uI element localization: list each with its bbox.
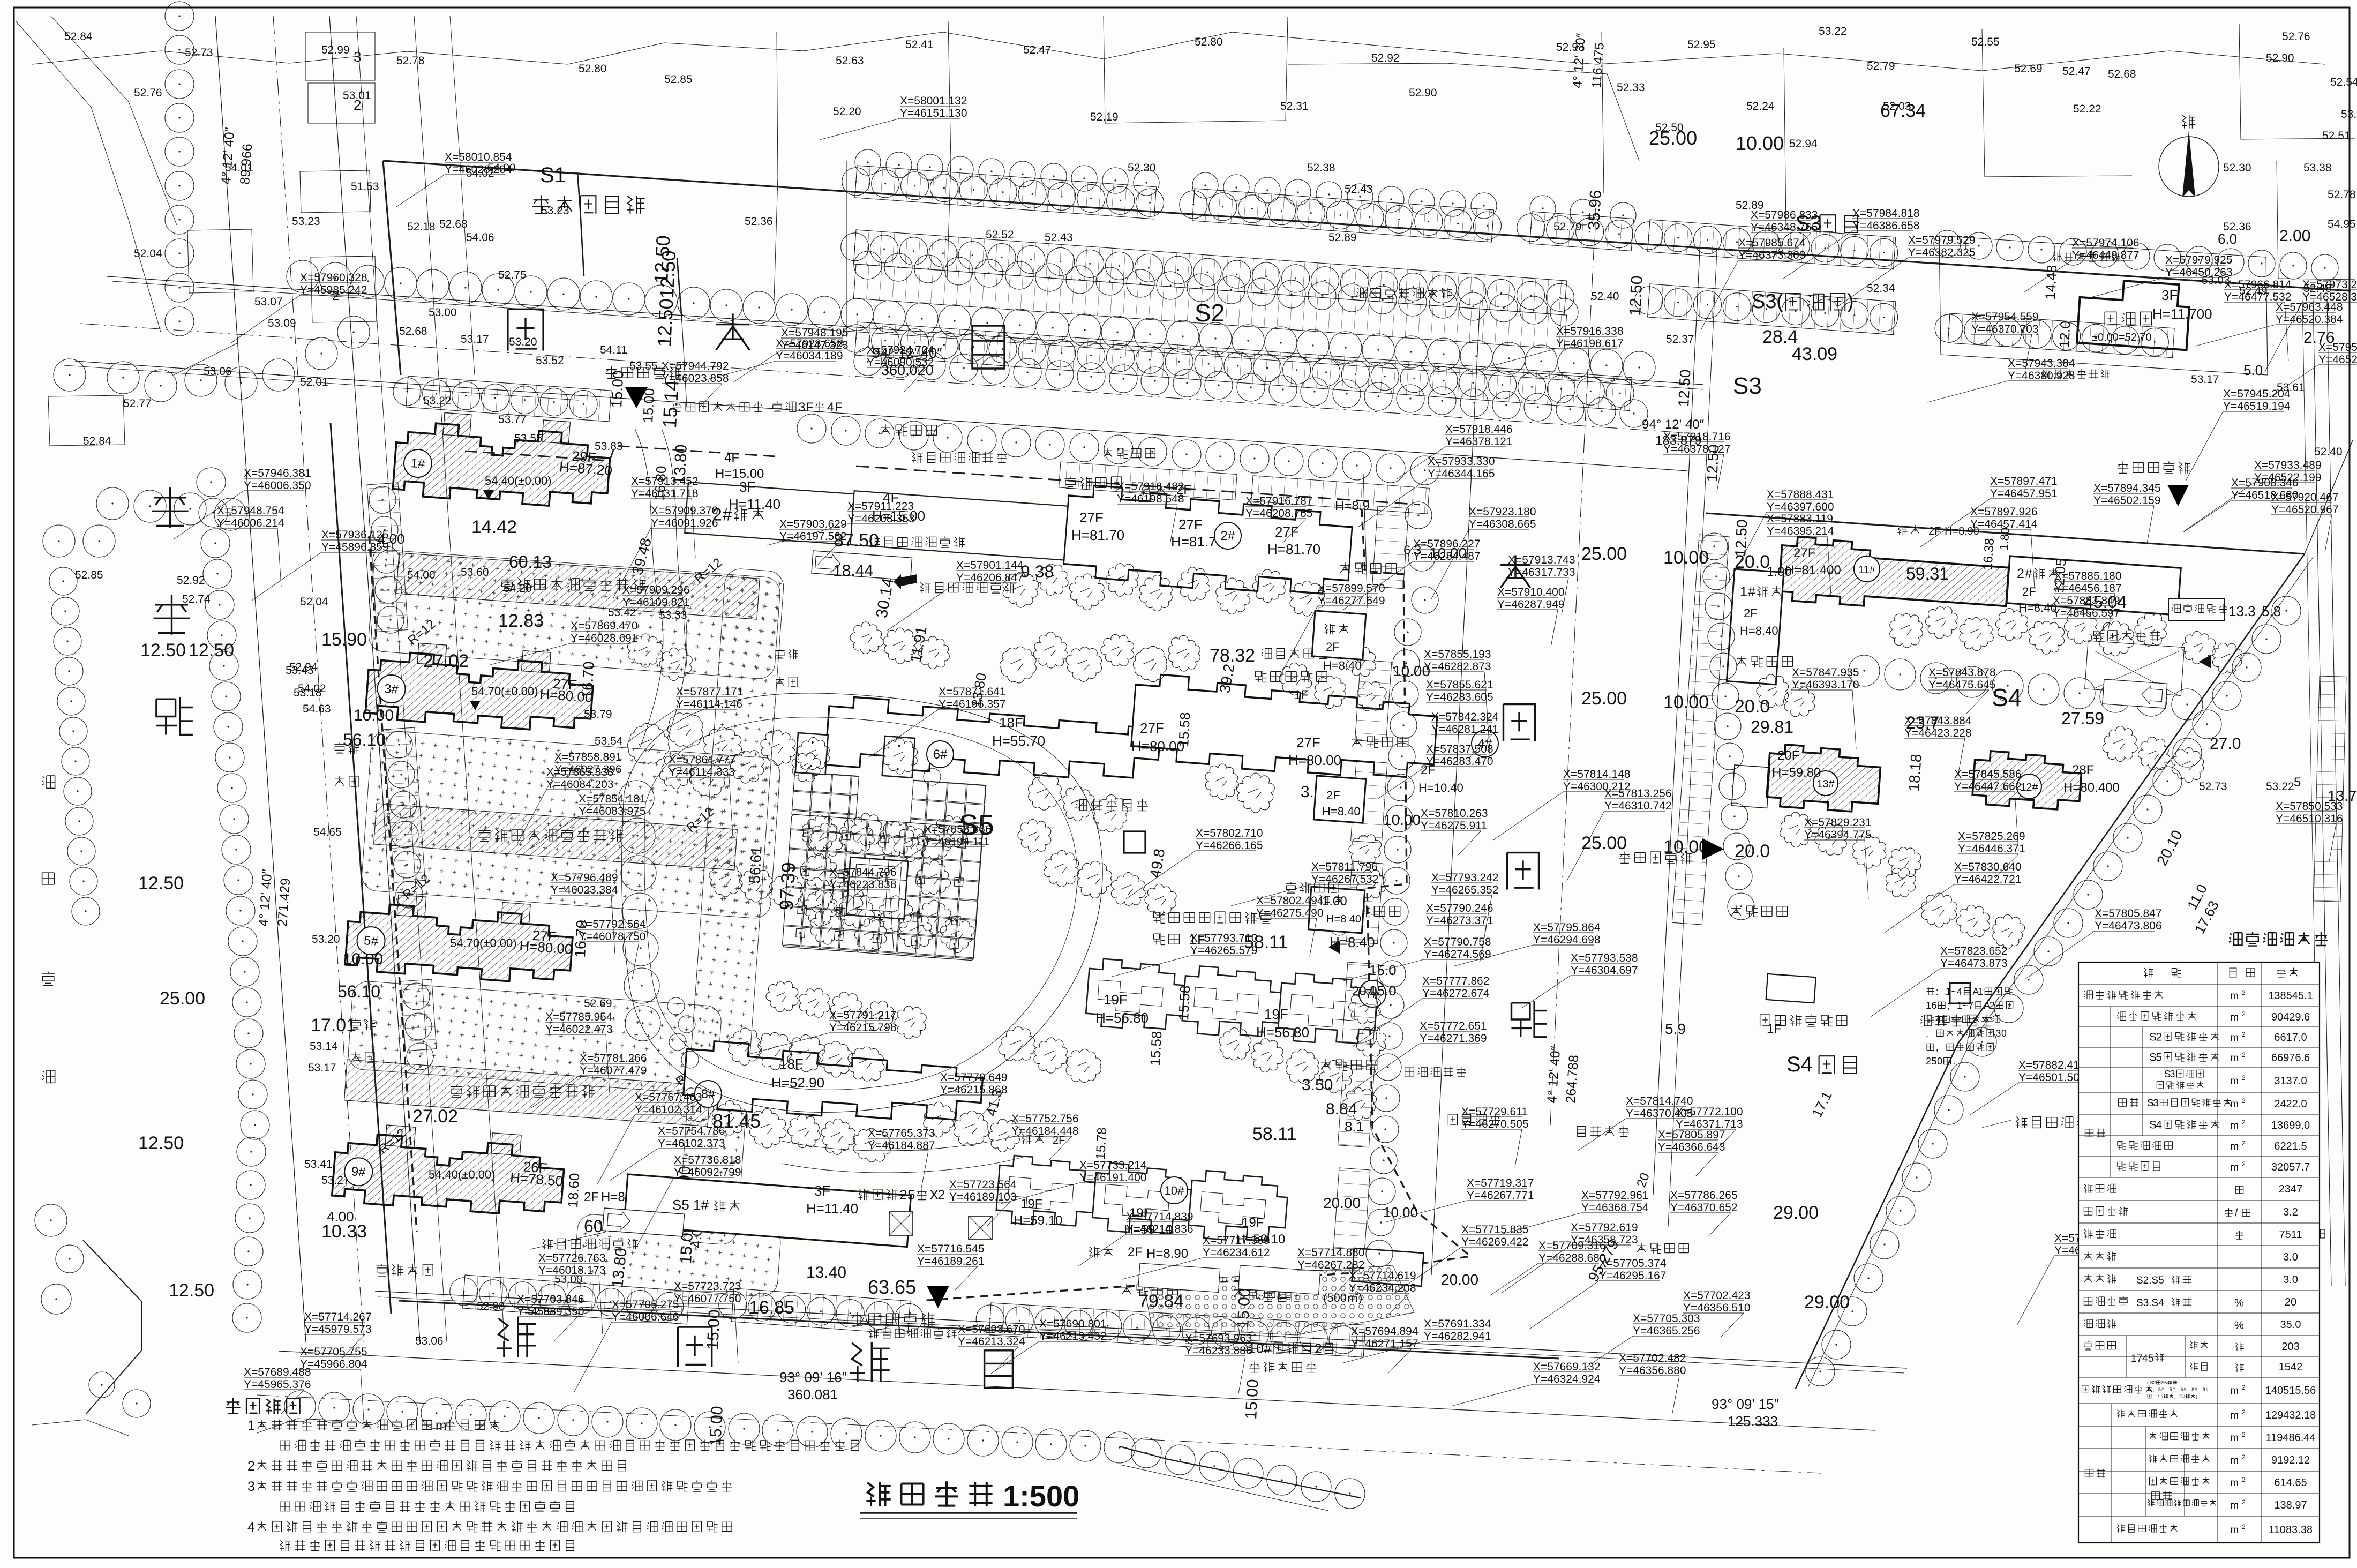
svg-text:16.38: 16.38 <box>1980 538 1997 571</box>
svg-text:X=57705.275: X=57705.275 <box>612 1299 679 1311</box>
svg-text:1: 1 <box>1957 1000 1962 1011</box>
svg-text:90429.6: 90429.6 <box>2271 1011 2310 1023</box>
svg-text:56.10: 56.10 <box>337 982 380 1001</box>
svg-text:3.0: 3.0 <box>2283 1251 2298 1263</box>
svg-text:H=56.80: H=56.80 <box>1095 1010 1149 1026</box>
svg-text:Y=46368.754: Y=46368.754 <box>1581 1202 1649 1214</box>
svg-text:H=8 40: H=8 40 <box>1326 913 1361 925</box>
svg-text:X=57785.954: X=57785.954 <box>545 1011 613 1023</box>
svg-text:Y=46189.261: Y=46189.261 <box>917 1255 985 1267</box>
svg-text:2: 2 <box>2242 1408 2246 1416</box>
svg-text:53.09: 53.09 <box>268 317 296 329</box>
svg-text:2F: 2F <box>1928 526 1941 537</box>
svg-text:Y=46084.203: Y=46084.203 <box>546 778 614 791</box>
svg-text:52.63: 52.63 <box>836 55 864 67</box>
svg-text:Y=46370.652: Y=46370.652 <box>1670 1202 1738 1214</box>
svg-text:H=10.40: H=10.40 <box>1418 781 1463 794</box>
garden big circle trees west column <box>619 781 654 816</box>
svg-text:27.02: 27.02 <box>412 1106 458 1127</box>
svg-text:Y=46395.214: Y=46395.214 <box>1767 525 1834 537</box>
svg-text:2F: 2F <box>1128 1245 1143 1259</box>
svg-text:51.53: 51.53 <box>351 181 379 193</box>
svg-text:1.00: 1.00 <box>1767 565 1792 579</box>
svg-text:#: # <box>2183 1387 2186 1392</box>
design notes 设计说明 <box>226 1398 240 1414</box>
road 果园北路 lines <box>375 1291 1907 1368</box>
road name 联兴路 (pseudo glyphs) <box>508 309 543 350</box>
svg-text:7511: 7511 <box>2279 1229 2302 1241</box>
svg-text:%: % <box>2234 1320 2244 1332</box>
svg-text:11083.38: 11083.38 <box>2269 1524 2313 1536</box>
svg-text:Y=46233.886: Y=46233.886 <box>1185 1345 1252 1357</box>
svg-text:2: 2 <box>2242 1074 2246 1082</box>
svg-text:52.69: 52.69 <box>2014 63 2043 75</box>
building 2# podium (commercial) <box>685 479 1068 560</box>
svg-text:3#: 3# <box>384 681 399 697</box>
svg-text:17.01: 17.01 <box>311 1015 356 1036</box>
svg-text:X=57793.242: X=57793.242 <box>1431 872 1499 884</box>
svg-text:53.41: 53.41 <box>304 1158 333 1171</box>
svg-text:2: 2 <box>2156 1031 2162 1044</box>
svg-text:X=57845.586: X=57845.586 <box>1954 768 2022 781</box>
note text block <box>1927 987 1934 995</box>
svg-text:X=57843.878: X=57843.878 <box>1928 666 1996 679</box>
site north red line (thick) <box>383 161 2351 291</box>
svg-text:2: 2 <box>2242 1453 2246 1461</box>
building 13# podium <box>1732 765 1770 808</box>
svg-text:H=59.80: H=59.80 <box>1772 766 1821 780</box>
svg-text:Y=46344.165: Y=46344.165 <box>1428 468 1495 480</box>
svg-text:X=57779.649: X=57779.649 <box>940 1071 1008 1084</box>
svg-text:X=57767.463: X=57767.463 <box>635 1091 702 1104</box>
svg-text:Y=46191.400: Y=46191.400 <box>1079 1172 1147 1184</box>
svg-text:Y=46083.975: Y=46083.975 <box>579 805 646 817</box>
svg-text:5: 5 <box>2156 1052 2162 1064</box>
svg-text:6221.5: 6221.5 <box>2274 1141 2307 1152</box>
svg-text:3: 3 <box>798 400 805 415</box>
svg-text:X=57765.373: X=57765.373 <box>868 1127 935 1139</box>
svg-text:X=57946.381: X=57946.381 <box>244 467 311 479</box>
svg-text:Y=46198.548: Y=46198.548 <box>1117 493 1184 505</box>
svg-text:53.17: 53.17 <box>2191 373 2219 386</box>
svg-text:3: 3 <box>2158 1387 2161 1392</box>
svg-text:#: # <box>2161 1387 2164 1392</box>
svg-text:X=57918.716: X=57918.716 <box>1663 431 1731 443</box>
svg-text:Y=46356.880: Y=46356.880 <box>1619 1364 1686 1377</box>
svg-text:Y=46006.646: Y=46006.646 <box>612 1311 679 1323</box>
svg-text:#: # <box>2150 1387 2153 1392</box>
svg-text:4F: 4F <box>724 451 739 465</box>
svg-text:Y=46284.487: Y=46284.487 <box>1413 550 1481 562</box>
svg-text:Y=46520.967: Y=46520.967 <box>2271 504 2339 516</box>
svg-text:Y=46194.111: Y=46194.111 <box>924 836 989 848</box>
svg-text:#: # <box>2206 1387 2209 1392</box>
svg-text:Y=46317.733: Y=46317.733 <box>1508 566 1575 579</box>
site west red line (thick) <box>331 423 391 1314</box>
svg-text:54.70(±0.00): 54.70(±0.00) <box>450 936 517 950</box>
svg-text:1: 1 <box>1946 986 1951 997</box>
svg-text:X=57726.763: X=57726.763 <box>538 1252 606 1264</box>
building 11# podium 1#商业 <box>1727 569 1783 685</box>
svg-text:m: m <box>2230 1053 2239 1064</box>
svg-text:2: 2 <box>2017 566 2024 581</box>
svg-text:5.8: 5.8 <box>2262 603 2281 619</box>
road 果园北路 south trees <box>284 1391 316 1422</box>
svg-text:0: 0 <box>1256 1341 1264 1356</box>
svg-text:X=57723.723: X=57723.723 <box>674 1280 741 1293</box>
garage ramp bottom <box>603 1208 685 1236</box>
svg-text:2: 2 <box>1926 1056 1931 1067</box>
svg-text:X=57882.419: X=57882.419 <box>2018 1059 2086 1071</box>
svg-text:X=57694.894: X=57694.894 <box>1351 1325 1418 1338</box>
svg-text:52.92: 52.92 <box>177 574 205 587</box>
fire lane along top <box>1065 477 1076 489</box>
svg-text:6: 6 <box>1932 1000 1937 1011</box>
svg-text:3F: 3F <box>2161 287 2178 303</box>
svg-text:#: # <box>2182 1394 2185 1399</box>
svg-text:H=56.80: H=56.80 <box>1256 1024 1309 1040</box>
svg-text:,: , <box>1936 1042 1939 1053</box>
svg-text:1: 1 <box>247 1418 255 1433</box>
svg-text:2F: 2F <box>2022 585 2036 598</box>
svg-text:2F: 2F <box>1744 606 1758 620</box>
svg-text:Y=45896.859: Y=45896.859 <box>321 541 389 553</box>
svg-text:1542: 1542 <box>2279 1361 2303 1373</box>
svg-text:X=57837.508: X=57837.508 <box>1426 743 1493 755</box>
svg-text:53.22: 53.22 <box>1819 25 1847 37</box>
svg-text:X=58010.854: X=58010.854 <box>445 151 512 163</box>
svg-text:53.20: 53.20 <box>509 336 537 348</box>
svg-text:X=57714.880: X=57714.880 <box>1297 1247 1365 1259</box>
svg-text:27F: 27F <box>1140 720 1164 736</box>
svg-text:52.43: 52.43 <box>1045 231 1073 244</box>
svg-text:1: 1 <box>2158 1394 2160 1399</box>
svg-text:Y=46267.771: Y=46267.771 <box>1467 1189 1534 1202</box>
svg-text:X=57723.564: X=57723.564 <box>949 1179 1017 1191</box>
svg-text:5.9: 5.9 <box>1665 1021 1686 1037</box>
svg-text:52.04: 52.04 <box>300 596 328 608</box>
svg-text:Y=46446.371: Y=46446.371 <box>1958 843 2025 855</box>
svg-text:5.0: 5.0 <box>2243 362 2263 378</box>
svg-text:m: m <box>2230 1099 2239 1110</box>
svg-text:Y=46114.146: Y=46114.146 <box>676 698 742 710</box>
svg-text:52.68: 52.68 <box>399 325 427 337</box>
svg-text:12.50: 12.50 <box>140 640 186 661</box>
off-site house blocks <box>305 32 375 80</box>
svg-text:X=57985.674: X=57985.674 <box>1738 237 1806 249</box>
svg-text:3: 3 <box>2153 1098 2159 1109</box>
svg-text:52.99: 52.99 <box>321 44 350 56</box>
svg-text:Y=46394.775: Y=46394.775 <box>1804 829 1872 841</box>
svg-text:59.31: 59.31 <box>1906 564 1949 583</box>
svg-text:3.2: 3.2 <box>2283 1206 2298 1218</box>
svg-text:52.76: 52.76 <box>2282 31 2310 43</box>
garage ramp SE <box>2103 679 2167 708</box>
main entrance triangle bottom <box>927 1286 949 1308</box>
svg-text:Y=46501.508: Y=46501.508 <box>2018 1071 2086 1084</box>
svg-text:52.43: 52.43 <box>1345 183 1373 196</box>
building 11# (27F) <box>1778 536 2010 616</box>
svg-text:2: 2 <box>2242 1384 2246 1391</box>
svg-text:52.94: 52.94 <box>1789 138 1818 150</box>
svg-text:52.24: 52.24 <box>1746 100 1775 112</box>
svg-text:129432.18: 129432.18 <box>2265 1409 2316 1421</box>
svg-text:Y=46208.353: Y=46208.353 <box>847 513 915 525</box>
svg-text:X=57865.338: X=57865.338 <box>546 766 614 778</box>
svg-text:52.30: 52.30 <box>1128 162 1156 174</box>
svg-text:6#: 6# <box>933 747 948 762</box>
svg-text:): ) <box>2196 1394 2197 1399</box>
svg-text:27.59: 27.59 <box>2061 709 2104 728</box>
off-site field boundary lines top <box>32 32 2325 71</box>
svg-text:X=57714.839: X=57714.839 <box>1126 1211 1193 1223</box>
svg-text:19F: 19F <box>1020 1197 1042 1211</box>
site east boundary thick dashed <box>921 509 1470 1301</box>
svg-text:20.0: 20.0 <box>1735 841 1770 861</box>
svg-text:Y=46147.323: Y=46147.323 <box>781 339 849 351</box>
building 1# (29F) <box>393 409 616 510</box>
svg-text:1: 1 <box>2147 1387 2150 1392</box>
svg-text:Y=46456.597: Y=46456.597 <box>2053 607 2120 619</box>
svg-text:15.00: 15.00 <box>1242 1379 1262 1420</box>
svg-text:X=57814.148: X=57814.148 <box>1563 768 1631 781</box>
svg-text:X=57793.710: X=57793.710 <box>1190 932 1258 944</box>
svg-text:52.73: 52.73 <box>2199 781 2227 793</box>
svg-text:2: 2 <box>2242 1476 2246 1483</box>
svg-text:X=57754.786: X=57754.786 <box>658 1125 725 1137</box>
svg-text:Y=46206.847: Y=46206.847 <box>956 572 1024 584</box>
svg-text:7: 7 <box>1968 1000 1973 1011</box>
svg-text:X=57945.204: X=57945.204 <box>2223 388 2291 400</box>
svg-text:93° 09' 15″: 93° 09' 15″ <box>1712 1396 1779 1412</box>
svg-text:2347: 2347 <box>2279 1183 2303 1195</box>
svg-text:Y=46023.384: Y=46023.384 <box>551 884 618 896</box>
svg-text:Y=46092.799: Y=46092.799 <box>674 1166 741 1179</box>
svg-text:53.00: 53.00 <box>429 306 457 319</box>
svg-text:X=57792.564: X=57792.564 <box>579 918 646 931</box>
svg-text:29.00: 29.00 <box>1804 1292 1850 1312</box>
building 2# towers (27F x3) <box>1063 484 1354 599</box>
building 4# (27F pair) <box>1130 673 1439 783</box>
svg-text:X=57702.423: X=57702.423 <box>1683 1289 1751 1302</box>
parcel S1 boundary + label <box>577 172 584 276</box>
svg-text:1745: 1745 <box>2131 1353 2153 1364</box>
svg-text:18.18: 18.18 <box>1905 753 1925 792</box>
svg-text:5#: 5# <box>363 933 379 949</box>
svg-text:2: 2 <box>2242 1160 2246 1168</box>
svg-text:1: 1 <box>1740 584 1747 599</box>
svg-text:m: m <box>2230 1455 2239 1466</box>
svg-text:S3.S4: S3.S4 <box>2136 1297 2164 1309</box>
svg-text:Y=46473.806: Y=46473.806 <box>2095 920 2162 932</box>
svg-text:X=57933.330: X=57933.330 <box>1428 455 1495 468</box>
svg-text:#: # <box>1748 584 1755 599</box>
svg-text:.: . <box>1953 1056 1955 1067</box>
svg-text:H=15.00: H=15.00 <box>715 467 764 481</box>
svg-text:F: F <box>806 400 814 415</box>
svg-text:4: 4 <box>827 400 834 415</box>
svg-text:5: 5 <box>2164 1380 2167 1385</box>
svg-text:Y=46283.605: Y=46283.605 <box>1426 691 1493 703</box>
svg-text:m: m <box>2230 1141 2239 1152</box>
svg-text:H=80.00: H=80.00 <box>1288 752 1341 768</box>
svg-text:%: % <box>2234 1297 2244 1309</box>
svg-text:614.65: 614.65 <box>2274 1477 2307 1489</box>
svg-text:52.73: 52.73 <box>185 47 213 59</box>
svg-text:X=57854.181: X=57854.181 <box>579 793 646 805</box>
svg-text:94° 12' 40″: 94° 12' 40″ <box>1642 417 1705 432</box>
svg-text:12.50: 12.50 <box>138 873 184 894</box>
svg-text:H=81.400: H=81.400 <box>1785 563 1841 577</box>
svg-text:Y=46348.765: Y=46348.765 <box>1751 221 1818 234</box>
svg-text:X=57811.796: X=57811.796 <box>1311 861 1378 873</box>
svg-text:,: , <box>2175 1387 2177 1392</box>
svg-text:X=57705.374: X=57705.374 <box>1599 1257 1667 1270</box>
svg-text:X=57825.269: X=57825.269 <box>1958 830 2025 843</box>
svg-text:Y=46449.877: Y=46449.877 <box>2072 249 2140 261</box>
svg-text:H=11.40: H=11.40 <box>806 1201 858 1217</box>
svg-text:S1: S1 <box>540 163 566 187</box>
svg-text:~: ~ <box>1963 1000 1969 1011</box>
arrow east lane <box>1328 940 1340 954</box>
svg-text:Y=46324.924: Y=46324.924 <box>1533 1373 1601 1385</box>
svg-text:13#: 13# <box>1816 778 1835 790</box>
svg-text:X=57781.266: X=57781.266 <box>580 1052 647 1064</box>
building 2# commercial right <box>2007 556 2181 615</box>
svg-text:Y=45966.804: Y=45966.804 <box>300 1358 367 1370</box>
svg-text:X=57793.538: X=57793.538 <box>1571 952 1638 964</box>
svg-text:Y=46287.949: Y=46287.949 <box>1497 598 1565 611</box>
svg-text:S2: S2 <box>1195 299 1225 327</box>
svg-text:2: 2 <box>2242 989 2246 996</box>
svg-text:25.00: 25.00 <box>160 988 205 1009</box>
secondary entrance W <box>1702 838 1724 860</box>
building 3# (27F) <box>365 640 596 734</box>
trees top-left corner cluster <box>107 362 139 394</box>
svg-text:H=8.40: H=8.40 <box>1740 624 1778 637</box>
road 联兴路 street trees <box>287 260 319 292</box>
svg-text:52.68: 52.68 <box>439 218 468 230</box>
svg-text:15.00: 15.00 <box>608 370 627 409</box>
svg-text:66976.6: 66976.6 <box>2271 1052 2310 1064</box>
svg-text:Y=46310.742: Y=46310.742 <box>1604 800 1672 812</box>
svg-text:4: 4 <box>1957 986 1962 997</box>
svg-text:1#: 1# <box>410 456 426 471</box>
svg-text:Y=46028.204: Y=46028.204 <box>445 163 512 176</box>
svg-text:Y=46518.680: Y=46518.680 <box>2231 489 2299 501</box>
svg-text:#: # <box>2172 1387 2175 1392</box>
svg-text:X=57877.171: X=57877.171 <box>676 686 744 698</box>
svg-text:2422.0: 2422.0 <box>2274 1098 2307 1110</box>
svg-text:Y=46213.324: Y=46213.324 <box>958 1336 1025 1348</box>
svg-text:X=57944.792: X=57944.792 <box>662 360 729 372</box>
svg-text:X=57716.545: X=57716.545 <box>917 1243 985 1255</box>
svg-text:#: # <box>2195 1387 2197 1392</box>
svg-text:52.90: 52.90 <box>2266 52 2294 64</box>
svg-text:52.95: 52.95 <box>1687 39 1716 51</box>
svg-text:Y=46382.325: Y=46382.325 <box>1908 246 1976 259</box>
svg-text:X=57883.849: X=57883.849 <box>2053 595 2120 607</box>
svg-text:X=57910.400: X=57910.400 <box>1497 586 1565 598</box>
svg-text:X=57908.346: X=57908.346 <box>2231 477 2299 489</box>
svg-text:2: 2 <box>2242 1031 2246 1038</box>
svg-text:Y=46215.868: Y=46215.868 <box>940 1084 1008 1096</box>
svg-text:53.38: 53.38 <box>2303 162 2332 174</box>
svg-text:X=57669.132: X=57669.132 <box>1533 1361 1601 1373</box>
svg-text:25.00: 25.00 <box>1581 688 1627 709</box>
svg-text:X=57924.704: X=57924.704 <box>867 344 934 356</box>
svg-text:Y=46034.189: Y=46034.189 <box>776 350 843 362</box>
svg-text:Y=46282.873: Y=46282.873 <box>1424 661 1491 673</box>
guard rooms 警卫室 <box>858 1189 869 1200</box>
svg-text:Y=46294.698: Y=46294.698 <box>1533 934 1601 946</box>
svg-text:Y=46234.208: Y=46234.208 <box>1349 1282 1416 1294</box>
svg-text:11#: 11# <box>1858 564 1876 576</box>
svg-text:25.00: 25.00 <box>1581 833 1627 853</box>
svg-text:9: 9 <box>2203 1387 2205 1392</box>
svg-text:27F: 27F <box>1793 546 1815 560</box>
svg-text:19F: 19F <box>1242 1216 1264 1230</box>
svg-text:52.94: 52.94 <box>289 661 318 673</box>
svg-text:3F: 3F <box>739 479 755 495</box>
svg-text:Y=46189.103: Y=46189.103 <box>949 1191 1017 1203</box>
svg-text:8: 8 <box>2191 1387 2194 1392</box>
bottom-left diagonal & trees <box>83 1240 142 1414</box>
parking band west of main entrance <box>392 375 611 422</box>
title 总平面图 1:500 <box>866 1482 890 1506</box>
svg-text:52.38: 52.38 <box>1307 162 1335 174</box>
svg-text:20.0: 20.0 <box>1352 984 1377 999</box>
svg-text:X=57903.629: X=57903.629 <box>779 518 847 530</box>
svg-text:S4: S4 <box>1992 684 2022 711</box>
svg-text:X=57702.482: X=57702.482 <box>1619 1352 1686 1364</box>
svg-text:1:500: 1:500 <box>1003 1479 1079 1513</box>
svg-text:Y=46273.371: Y=46273.371 <box>1426 914 1493 927</box>
svg-text:Y=46214.836: Y=46214.836 <box>1126 1223 1193 1235</box>
svg-text:1.80: 1.80 <box>1997 527 2012 551</box>
svg-text:29.81: 29.81 <box>1751 717 1793 737</box>
svg-text:Y=46447.662: Y=46447.662 <box>1954 781 2022 793</box>
svg-text:Y=46282.941: Y=46282.941 <box>1424 1330 1491 1342</box>
svg-text:56.10: 56.10 <box>343 730 386 749</box>
svg-text:140515.56: 140515.56 <box>2265 1385 2316 1397</box>
svg-text:Y=46208.765: Y=46208.765 <box>1245 507 1313 520</box>
svg-text:52.31: 52.31 <box>1280 100 1309 112</box>
svg-text:52.51: 52.51 <box>2322 130 2351 142</box>
svg-text:X=57984.818: X=57984.818 <box>1852 207 1920 220</box>
svg-text:X=57948.754: X=57948.754 <box>217 505 284 517</box>
svg-text:X=57843.884: X=57843.884 <box>1904 715 1972 727</box>
svg-text:54.11: 54.11 <box>600 344 627 356</box>
svg-text:X=57736.818: X=57736.818 <box>674 1154 741 1166</box>
svg-text:H=59.10: H=59.10 <box>1014 1213 1062 1228</box>
svg-text:X=57888.431: X=57888.431 <box>1767 489 1834 501</box>
svg-text:Y=46275.490: Y=46275.490 <box>1256 907 1324 919</box>
plaza pavilions <box>795 733 828 775</box>
svg-text:m: m <box>2230 1525 2239 1536</box>
svg-text:X=57960.328: X=57960.328 <box>300 272 367 284</box>
svg-text:Y=46457.951: Y=46457.951 <box>1990 487 2058 500</box>
svg-text:H=8.40: H=8.40 <box>2018 601 2057 614</box>
parcel S2 parking bands + trees <box>846 161 847 337</box>
svg-text:,: , <box>2187 1387 2188 1392</box>
svg-text:X=57847.935: X=57847.935 <box>1792 666 1859 679</box>
svg-text:,: , <box>2174 1394 2176 1399</box>
svg-text:1: 1 <box>1926 1000 1931 1011</box>
coordinate labels <box>217 505 284 529</box>
svg-text:X=57703.846: X=57703.846 <box>517 1293 584 1306</box>
svg-text:2: 2 <box>899 1188 907 1203</box>
